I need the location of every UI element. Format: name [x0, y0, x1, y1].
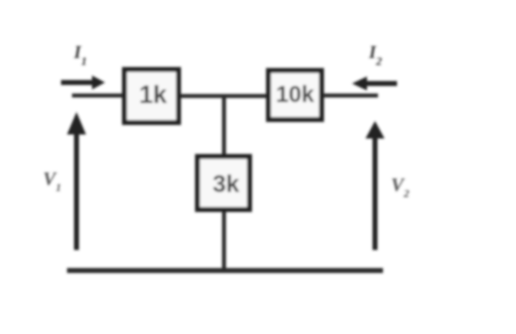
svg-text:10k: 10k	[276, 81, 315, 107]
svg-text:1k: 1k	[139, 81, 167, 109]
svg-text:3k: 3k	[213, 171, 240, 198]
